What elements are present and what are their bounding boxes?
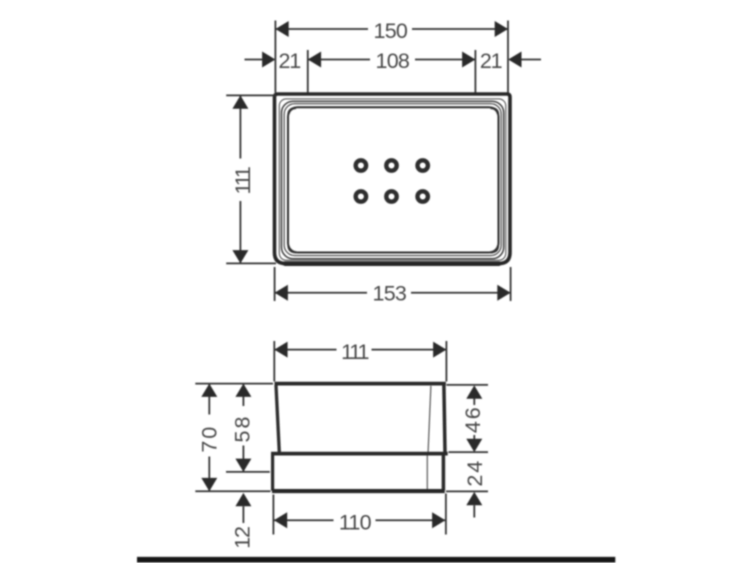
side view left wall bbox=[276, 385, 279, 452]
svg-text:46: 46 bbox=[461, 405, 485, 433]
top view rim middle line bbox=[284, 104, 501, 256]
svg-text:110: 110 bbox=[339, 510, 372, 534]
dimension 111 top view left bbox=[226, 95, 276, 263]
extension lines top dims bbox=[274, 21, 276, 93]
side view right reference lines bbox=[447, 384, 489, 386]
dimension 153 bbox=[275, 267, 511, 306]
dimension 108 bbox=[308, 49, 476, 73]
dimension 150 bbox=[275, 19, 508, 43]
side view left reference lines bbox=[195, 383, 273, 385]
svg-text:108: 108 bbox=[376, 49, 410, 73]
svg-text:21: 21 bbox=[279, 49, 301, 73]
svg-text:111: 111 bbox=[341, 340, 368, 364]
side view bottom edge bbox=[272, 489, 445, 493]
dimension 110 bbox=[273, 494, 446, 535]
side view shelf rim top bbox=[271, 452, 448, 456]
top view outer frame bbox=[275, 94, 511, 264]
svg-text:153: 153 bbox=[373, 282, 407, 306]
svg-text:58: 58 bbox=[231, 415, 255, 443]
dimension 46 bbox=[461, 385, 485, 452]
bottom separator bar bbox=[137, 557, 615, 563]
dimension 21 right bbox=[480, 49, 541, 73]
top view rim corner accents bbox=[289, 108, 499, 253]
svg-text:70: 70 bbox=[198, 425, 222, 453]
dimension 70 bbox=[198, 384, 222, 492]
dimension 21 left bbox=[245, 49, 301, 73]
svg-text:24: 24 bbox=[463, 459, 487, 487]
svg-text:111: 111 bbox=[231, 167, 255, 194]
dimension 111 side view bbox=[274, 340, 446, 382]
side view right wall inner line bbox=[428, 386, 431, 452]
svg-text:12: 12 bbox=[231, 527, 255, 549]
dimension 24 bbox=[463, 459, 487, 518]
svg-text:150: 150 bbox=[374, 19, 408, 43]
top view rim inner line bbox=[288, 107, 499, 252]
top view rim outer line bbox=[282, 101, 504, 258]
svg-text:21: 21 bbox=[480, 49, 502, 73]
dimension 12 bbox=[231, 493, 255, 549]
side view front panel right edge bbox=[442, 455, 446, 491]
side view front panel inner vertical bbox=[426, 456, 428, 490]
side view right wall outer bbox=[444, 385, 445, 452]
side view front panel left edge bbox=[271, 452, 274, 491]
drain holes (6) bbox=[356, 160, 428, 201]
dimension 58 bbox=[231, 384, 255, 472]
top view inner offset line bbox=[279, 99, 506, 260]
side view top edge bbox=[275, 382, 446, 386]
